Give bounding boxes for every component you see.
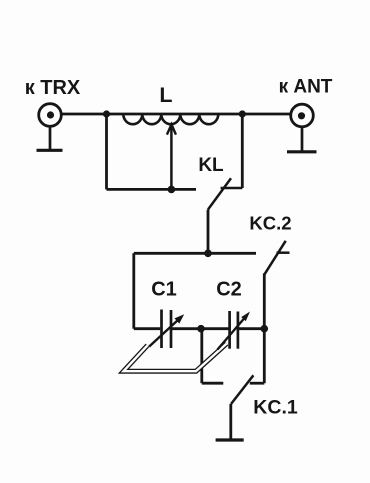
node tap (arrow / bottom wire) bbox=[168, 186, 176, 194]
node A (top rail / left branch) bbox=[103, 110, 110, 117]
wire top of capacitor network bbox=[134, 252, 256, 255]
node (C2 right / KC branch) bbox=[261, 325, 269, 333]
variable arrow C2 bbox=[218, 312, 251, 350]
inductor tap arrow bbox=[167, 124, 176, 189]
wire KC.1 left stub bbox=[202, 382, 224, 385]
ground (ANT) bbox=[287, 127, 317, 152]
svg-text:KC.2: KC.2 bbox=[249, 213, 291, 234]
wire C2 right plate to right node bbox=[238, 327, 264, 330]
svg-text:KL: KL bbox=[198, 155, 224, 176]
wire KL pivot down to cap network bbox=[207, 210, 210, 254]
wire to C1 left plate bbox=[134, 327, 160, 330]
svg-text:KC.1: KC.1 bbox=[253, 397, 298, 419]
svg-text:к ANT: к ANT bbox=[279, 77, 333, 98]
svg-text:C2: C2 bbox=[216, 279, 242, 301]
ground (KC.1) bbox=[216, 438, 244, 441]
switch KC.2 arm bbox=[264, 241, 286, 275]
wire mid branch down from C1-C2 node bbox=[200, 329, 203, 384]
coax connector TRX bbox=[39, 104, 62, 127]
node (C1-C2 bottom / mid branch) bbox=[197, 325, 205, 333]
wire KC.1 pivot down to ground bbox=[229, 404, 232, 440]
capacitor C1 bbox=[162, 310, 172, 349]
node B (top rail / KL branch) bbox=[239, 110, 246, 117]
switch KC.1 arm bbox=[231, 375, 253, 404]
svg-text:к TRX: к TRX bbox=[25, 77, 81, 99]
inductor L (coil arcs) bbox=[123, 114, 218, 124]
capacitor C2 bbox=[230, 311, 238, 349]
wire KC.2 pivot down to C2 right node bbox=[263, 273, 266, 328]
svg-text:L: L bbox=[159, 83, 172, 107]
wire top rail TRX to ANT bbox=[61, 113, 290, 116]
gang link (mechanical coupling C1-C2) bbox=[124, 344, 227, 372]
switch KL arm bbox=[208, 178, 231, 209]
wire right branch down to KC.1 bbox=[263, 329, 266, 384]
wire cap box left side bbox=[132, 253, 135, 328]
node (KL / cap top wire) bbox=[204, 250, 212, 258]
wire left branch down bbox=[105, 114, 108, 189]
wire KL fixed contact stub bbox=[221, 187, 243, 190]
switch KC.2 fixed contact stub bbox=[277, 251, 290, 254]
variable arrow C1 bbox=[149, 314, 184, 346]
ground (TRX) bbox=[37, 126, 63, 150]
wire KL branch down bbox=[241, 114, 244, 188]
wire C1 right plate to C2 left plate bbox=[171, 327, 230, 330]
wire KC.1 right stub bbox=[250, 382, 264, 385]
coax connector ANT bbox=[291, 104, 314, 127]
svg-text:C1: C1 bbox=[151, 279, 177, 301]
wire bottom of L loop bbox=[107, 188, 197, 191]
